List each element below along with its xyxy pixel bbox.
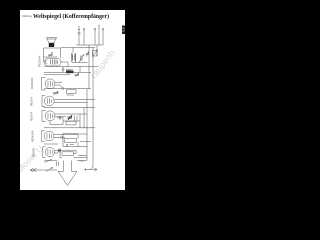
- tube V1 envelope: [44, 58, 61, 66]
- switch S1 slash: [45, 159, 53, 162]
- wire row under V1: [44, 66, 80, 68]
- wire stage4 verticals: [50, 114, 80, 128]
- black surround: [0, 0, 146, 200]
- tube V6 electrodes: [48, 150, 52, 155]
- wire speaker row: [44, 47, 62, 49]
- white page: [20, 10, 125, 190]
- wire long row y72: [44, 72, 91, 74]
- terminal T5: [102, 28, 104, 30]
- rail x93 bottom bend: [78, 155, 93, 170]
- tube V4 electrodes: [48, 113, 53, 118]
- tube V5 left loop: [42, 131, 45, 142]
- small resistor R4: [53, 91, 59, 95]
- tube V2 electrodes: [48, 81, 53, 87]
- tube V2 circle: [45, 79, 55, 89]
- wire terminal bus y45: [76, 44, 103, 46]
- variable capacitor C2: [79, 55, 84, 63]
- big ground arrow: [58, 161, 77, 186]
- speaker LS cone: [47, 38, 57, 44]
- capacitor C4: [62, 67, 64, 73]
- wire V6 outputs: [54, 151, 60, 154]
- svg-text:REN904: REN904: [31, 130, 35, 142]
- terminal T2: [83, 28, 85, 30]
- wire V1 plate out: [61, 62, 68, 67]
- wire row y62.5: [72, 62, 88, 64]
- svg-text:RE074: RE074: [30, 96, 34, 106]
- trimmer C6 dark: [68, 116, 73, 121]
- wire row y124.5: [50, 124, 63, 126]
- rail x93: [92, 48, 94, 156]
- svg-text:Körting: Körting: [22, 14, 32, 18]
- svg-text:REN904: REN904: [30, 77, 34, 89]
- wire speaker right vertical: [60, 48, 62, 58]
- wire row y107.5: [44, 107, 95, 109]
- terminal T1: [78, 28, 80, 30]
- resistor box R3: [67, 90, 77, 93]
- switch S2 slash on y170: [46, 168, 53, 172]
- wire left stub: [30, 169, 57, 171]
- terminal T4 tall: [98, 26, 100, 46]
- speaker LS magnet box: [49, 43, 54, 47]
- tube V1 electrodes: [45, 60, 57, 65]
- dark label block: [66, 71, 74, 74]
- wire top row y47.5: [61, 47, 95, 49]
- tube V2 left loop: [42, 78, 46, 91]
- tube V3 left loop: [42, 96, 45, 107]
- capacitor C1: [78, 33, 81, 45]
- rail x89: [88, 45, 90, 89]
- arrow left-pointing: [30, 168, 37, 171]
- resistor R1 above V1: [48, 54, 53, 57]
- tube V5 circle: [44, 131, 54, 141]
- svg-text:RE084: RE084: [32, 147, 36, 157]
- wire V5 outputs: [54, 135, 78, 138]
- wire row y74.8: [44, 74, 70, 76]
- wire V3 outputs: [54, 100, 95, 103]
- capacitor C8: [58, 136, 65, 139]
- label bottom-right: [80, 160, 85, 162]
- tube V5 electrodes: [47, 133, 52, 138]
- tube V3 circle: [44, 96, 54, 106]
- antenna coil L1: [71, 53, 74, 62]
- wire loop around R7: [60, 150, 80, 157]
- arrow on R1: [49, 53, 53, 57]
- tube V3 electrodes: [47, 98, 52, 103]
- resistor box R6: [65, 139, 77, 143]
- terminal T3: [94, 28, 96, 30]
- resistor R2 with arrow: [75, 73, 80, 77]
- wire row y160.5: [44, 160, 87, 162]
- wire under R1: [44, 56, 58, 58]
- arrow right small: [84, 168, 97, 171]
- wire V4 outputs: [55, 114, 80, 117]
- label 0,1MΩ: [67, 94, 75, 96]
- svg-text:RES964: RES964: [38, 55, 42, 67]
- tube V6 left loop: [43, 147, 46, 158]
- capacitor C10 dark: [59, 149, 60, 152]
- wire x80 vertical: [79, 67, 81, 73]
- coil L3 box: [93, 51, 98, 57]
- wire loop around R6: [63, 134, 80, 147]
- wire row y88.7: [44, 88, 91, 90]
- wire V2 grid out: [55, 83, 63, 89]
- rail x97: [96, 45, 98, 56]
- capacitor C9 with text: [67, 144, 75, 147]
- wire y121: [63, 120, 80, 122]
- tube V4 left loop: [42, 111, 46, 122]
- page-edge stamp blob: [122, 26, 125, 35]
- rail branch stubs: [78, 67, 98, 158]
- wire row y127.8 long: [44, 127, 95, 129]
- svg-text:Weltspiegel (Kofferempfänger): Weltspiegel (Kofferempfänger): [33, 13, 109, 20]
- label a: [78, 26, 80, 28]
- tube V4 circle: [45, 111, 55, 121]
- svg-text:RE074: RE074: [30, 111, 34, 121]
- wire x84 vertical: [83, 108, 85, 128]
- wire row y144: [44, 143, 58, 145]
- tube V6 circle: [45, 147, 54, 156]
- capacitor C11: [57, 162, 59, 167]
- capacitor C5: [62, 87, 63, 90]
- arrow on L3: [92, 50, 98, 58]
- antenna coil L2: [74, 53, 77, 62]
- label 0,1: [66, 69, 73, 70]
- wire top-left vertical: [43, 48, 45, 62]
- resistor marks: [75, 116, 78, 122]
- wire junction vertical x73: [72, 48, 74, 54]
- rail x87 vertical lower: [86, 89, 88, 160]
- resistor box R7: [62, 152, 74, 156]
- trimmer C3: [86, 52, 89, 57]
- capacitor C7: [57, 116, 63, 120]
- resistor box R5: [66, 121, 76, 125]
